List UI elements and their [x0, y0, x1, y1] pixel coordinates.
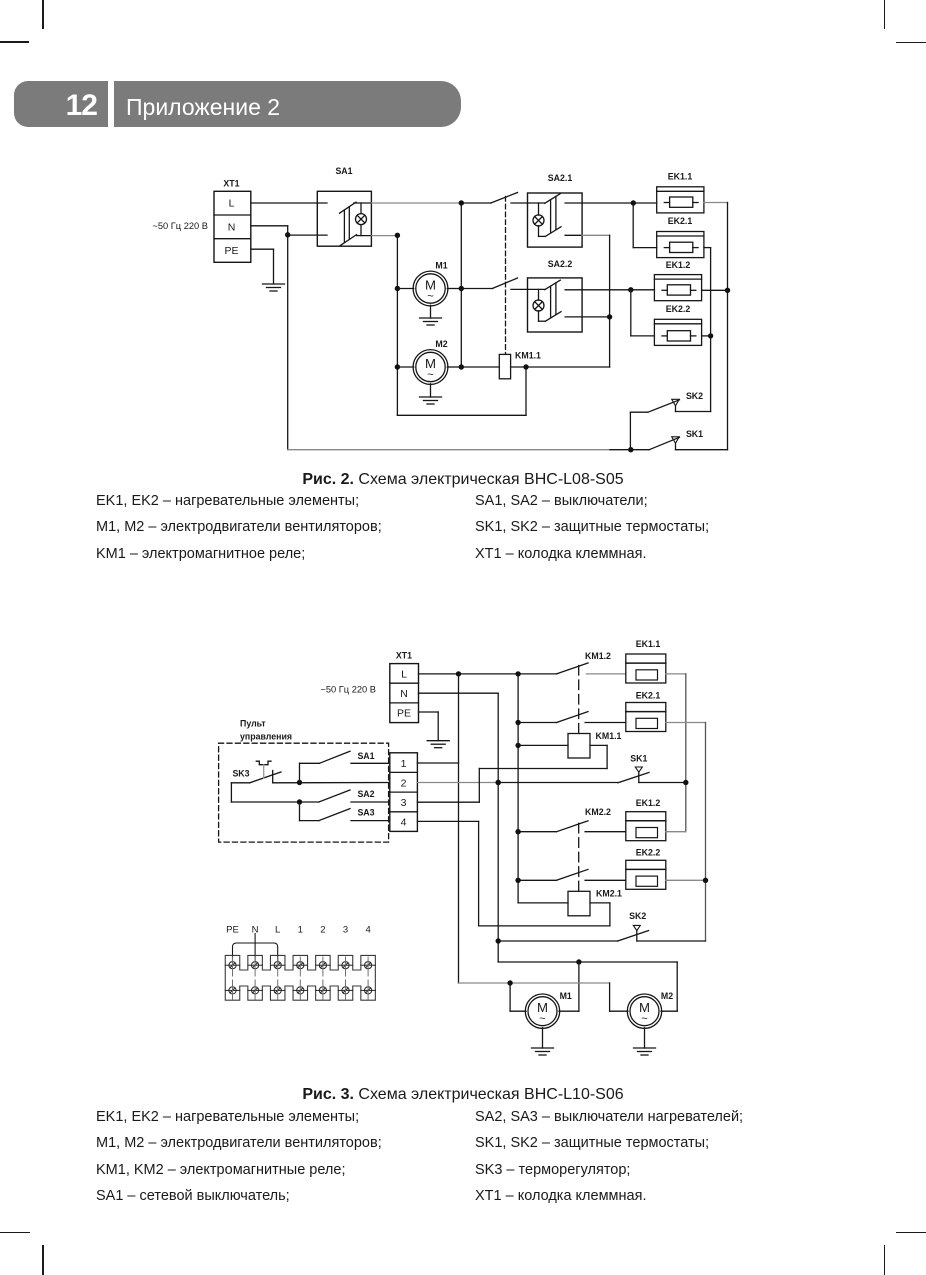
svg-text:1: 1 — [298, 924, 303, 935]
wire rail EK1 right — [727, 203, 729, 450]
wire SA2.1 bottom out — [582, 234, 610, 236]
node KM1.1 feed — [515, 743, 520, 748]
svg-text:SA2: SA2 — [357, 789, 374, 799]
contact KM2 second pole — [518, 869, 626, 880]
wire cell 3 — [417, 769, 607, 803]
thermostat SK2 — [498, 911, 705, 941]
node SA1 bottom — [395, 233, 400, 238]
svg-text:EK2.2: EK2.2 — [636, 848, 661, 858]
node SK1 right — [683, 780, 688, 785]
svg-text:XT1: XT1 — [396, 651, 412, 661]
header bar — [14, 81, 461, 127]
ground M1 — [420, 305, 442, 325]
wire cell 1 — [417, 762, 458, 764]
wire to SA1 lower pin — [288, 234, 327, 236]
thermostat SK1 — [649, 429, 727, 450]
svg-text:XT1: XT1 — [223, 179, 239, 189]
svg-text:~: ~ — [539, 1013, 545, 1025]
contact SA2.2 — [492, 278, 517, 289]
wire rail EK2 right — [710, 248, 712, 412]
svg-text:SA1: SA1 — [335, 166, 352, 176]
svg-text:EK1.2: EK1.2 — [666, 260, 691, 270]
wire rail motor feed — [458, 674, 460, 983]
svg-text:SA2.1: SA2.1 — [548, 173, 573, 183]
terminal strip labels — [226, 924, 371, 935]
svg-text:EK2.1: EK2.1 — [668, 216, 693, 226]
ground M2 — [634, 1028, 656, 1055]
wire EK1.1 right — [704, 202, 728, 204]
svg-text:KM1.1: KM1.1 — [515, 351, 541, 361]
wire L — [419, 673, 557, 675]
mechanical link dashed — [505, 197, 507, 355]
wire SA1 feed — [300, 763, 320, 782]
svg-text:SK1: SK1 — [630, 754, 647, 764]
node KM1.1 out — [523, 364, 528, 369]
wire rail motors L — [460, 203, 462, 367]
terminal strip jumper PE-L — [233, 943, 278, 961]
svg-text:SA3: SA3 — [357, 808, 374, 818]
wire SA1 bottom out — [371, 235, 397, 237]
node SK3 out — [297, 780, 302, 785]
crop marks — [42, 0, 44, 29]
svg-text:M1: M1 — [560, 991, 572, 1001]
svg-text:SA2.2: SA2.2 — [548, 259, 573, 269]
svg-text:KM2.1: KM2.1 — [596, 889, 622, 899]
node top rail — [459, 200, 464, 205]
wire PE — [419, 712, 439, 741]
wire M1 right — [559, 962, 579, 1011]
svg-text:SK2: SK2 — [686, 391, 703, 401]
svg-text:KM2.2: KM2.2 — [585, 807, 611, 817]
wire SA2.2 bottom out — [582, 316, 610, 318]
svg-text:M1: M1 — [435, 260, 447, 270]
wire SA3 feed — [300, 802, 319, 821]
svg-text:SA1: SA1 — [357, 751, 374, 761]
svg-text:SK1: SK1 — [686, 429, 703, 439]
wire KM1.1 return — [397, 367, 526, 415]
motor M1 — [397, 260, 461, 306]
wire cell 4 — [417, 821, 610, 926]
terminal block XT1 — [214, 179, 251, 263]
schematic 1: Рис. 2 BHC-L08-S05 — [0, 155, 926, 470]
svg-text:EK1.1: EK1.1 — [636, 639, 661, 649]
ground PE — [427, 741, 449, 748]
svg-text:PE: PE — [224, 245, 238, 257]
wire SA1 top out — [371, 202, 461, 204]
svg-text:SK3: SK3 — [232, 769, 249, 779]
wire EK2.1 left — [633, 203, 657, 248]
switch SA2.2 — [511, 259, 582, 332]
wire EK1.2 right — [702, 289, 728, 291]
wire left rail N — [287, 235, 289, 450]
wire N — [419, 693, 499, 962]
control panel dashed box — [219, 743, 389, 842]
svg-text:EK1.1: EK1.1 — [668, 172, 693, 182]
wire cell 2 / SK1 line — [417, 782, 498, 784]
node EK2.2 right — [703, 878, 708, 883]
terminal strip N lead — [254, 934, 256, 962]
node L branch 1 — [456, 671, 461, 676]
heater EK2.2 — [654, 304, 701, 345]
svg-text:Пульт: Пульт — [240, 719, 266, 729]
wire rail motors N — [396, 235, 398, 415]
wire EK2.2 right — [702, 335, 711, 337]
legend 1 left — [96, 488, 382, 568]
heater EK2.1 — [626, 691, 666, 732]
svg-text:~50 Гц 220 В: ~50 Гц 220 В — [320, 685, 376, 695]
relay coil KM2.1 — [568, 889, 622, 916]
wire motors N feed — [498, 962, 677, 1011]
wire SK3 left branch — [231, 783, 319, 802]
legend 2 right — [475, 1104, 743, 1210]
svg-text:2: 2 — [320, 924, 325, 935]
heater EK2.2 — [626, 848, 666, 890]
switch SA2 — [319, 789, 390, 802]
ground PE — [263, 284, 285, 291]
contact KM1.2 — [557, 651, 626, 674]
ground M2 — [420, 384, 442, 404]
svg-text:N: N — [228, 221, 236, 233]
svg-text:~: ~ — [427, 369, 433, 381]
wire KM1.1 left — [518, 744, 568, 746]
switch SA1 — [317, 166, 371, 246]
svg-text:~50 Гц 220 В: ~50 Гц 220 В — [152, 221, 208, 231]
thermoregulator SK3 — [231, 761, 281, 783]
schematic 2: Рис. 3 BHC-L10-S06 — [0, 630, 926, 1070]
heater EK1.2 — [626, 798, 666, 841]
svg-text:~: ~ — [427, 291, 433, 303]
wire SA2.1 top out — [582, 202, 657, 204]
caption 2 — [0, 1086, 926, 1104]
svg-text:L: L — [401, 668, 407, 680]
wire rail EK2 — [705, 723, 707, 942]
wire rail EK1 — [685, 674, 687, 832]
wire EK1.2 right — [666, 831, 686, 833]
wire KM2.1 right return — [590, 903, 610, 926]
wire KM2.1 left — [518, 902, 568, 904]
wire PE — [251, 249, 274, 284]
node SA2 feed — [297, 799, 302, 804]
wire L to SA1 — [251, 202, 327, 204]
svg-text:KM1.2: KM1.2 — [585, 651, 611, 661]
node EK1.2 right — [725, 288, 730, 293]
thermostat SK1 — [618, 754, 686, 783]
switch SA1 — [319, 751, 389, 763]
thermostat SK2 — [630, 391, 710, 450]
wire M1 left — [510, 983, 526, 1011]
wire EK2.2 right — [666, 879, 706, 881]
wire EK2.1 right — [666, 722, 706, 724]
svg-text:L: L — [229, 198, 235, 210]
node EK2.2 right — [708, 333, 713, 338]
node EK1.1 in — [631, 200, 636, 205]
node SK1 N — [496, 780, 501, 785]
wire M2 row to KM1.1 — [461, 366, 499, 368]
node EK1.2 in — [628, 287, 633, 292]
node SK1 left — [628, 447, 633, 452]
node junction N/SA1 — [285, 232, 290, 237]
svg-text:3: 3 — [401, 797, 407, 809]
mechanical link KM1 dashed — [578, 666, 580, 734]
node M2 left — [395, 364, 400, 369]
svg-text:L: L — [275, 924, 280, 935]
node KM2 second feed — [515, 878, 520, 883]
svg-text:M2: M2 — [661, 991, 673, 1001]
node L branch 2 — [515, 671, 520, 676]
wire KM1.1 right — [511, 366, 610, 368]
contact KM1 second pole — [518, 712, 626, 723]
wire EK1.1 right — [666, 673, 686, 675]
label control panel — [240, 719, 292, 742]
wire SK3 out to cell 2 — [273, 782, 390, 784]
svg-text:EK1.2: EK1.2 — [636, 798, 661, 808]
svg-text:N: N — [400, 688, 408, 700]
motor M2 — [627, 991, 673, 1028]
svg-text:2: 2 — [401, 777, 407, 789]
legend 2 left — [96, 1104, 382, 1210]
node SK1 line N — [496, 780, 501, 785]
svg-text:M2: M2 — [435, 339, 447, 349]
contact KM2.2 — [518, 807, 626, 832]
caption 1 — [0, 471, 926, 489]
node SA2 rail — [607, 314, 612, 319]
relay coil KM1.1 — [499, 351, 541, 379]
terminal strip body — [225, 955, 375, 1000]
node KM2.2 feed — [515, 829, 520, 834]
motor M1 — [525, 991, 572, 1028]
switch SA3 — [319, 808, 390, 821]
wire M1 row to SA2.2 contact — [461, 288, 492, 290]
terminal strip screws — [225, 957, 375, 999]
switch SA2.1 — [511, 173, 582, 247]
node KM1.2 feed — [515, 720, 520, 725]
legend 1 right — [475, 488, 709, 568]
heater EK1.2 — [654, 260, 701, 301]
svg-text:KM1.1: KM1.1 — [596, 731, 622, 741]
node M2 right — [459, 364, 464, 369]
node M1 left — [395, 286, 400, 291]
wire SA2.2 top out — [582, 289, 654, 291]
wire N — [251, 226, 288, 235]
motor M2 — [397, 339, 461, 385]
svg-text:EK2.2: EK2.2 — [666, 304, 691, 314]
heater EK2.1 — [657, 216, 704, 258]
terminal block XT1 — [390, 651, 419, 723]
svg-text:4: 4 — [365, 924, 370, 935]
wire bottom rail — [288, 449, 610, 451]
svg-text:4: 4 — [401, 817, 407, 829]
wire KM1.1 right return — [590, 745, 607, 768]
wire rail contact feed — [517, 674, 519, 903]
mechanical link KM2 dashed — [578, 823, 580, 891]
heater EK1.1 — [657, 172, 704, 213]
wire motors L feed — [459, 983, 629, 1011]
wire top rail to SA2.1 — [461, 202, 491, 204]
svg-text:PE: PE — [226, 924, 239, 935]
node M1 right — [459, 286, 464, 291]
svg-text:3: 3 — [343, 924, 348, 935]
wire EK2.1 right — [704, 247, 711, 249]
heater EK1.1 — [626, 639, 666, 683]
ground M1 — [532, 1028, 554, 1055]
wire rail SA2 out — [609, 235, 611, 367]
node M1 L — [507, 980, 512, 985]
node SK2 N — [496, 938, 501, 943]
svg-text:PE: PE — [397, 708, 411, 720]
svg-text:~: ~ — [641, 1013, 647, 1025]
svg-text:управления: управления — [240, 732, 292, 742]
node M1 N — [576, 959, 581, 964]
wire EK2.2 left — [631, 290, 655, 336]
relay coil KM1.1 — [568, 731, 622, 758]
terminal block 1-4 — [390, 753, 418, 832]
contact SA2.1 — [491, 193, 518, 204]
svg-text:SK2: SK2 — [629, 911, 646, 921]
svg-text:1: 1 — [401, 758, 407, 770]
svg-text:EK2.1: EK2.1 — [636, 691, 661, 701]
